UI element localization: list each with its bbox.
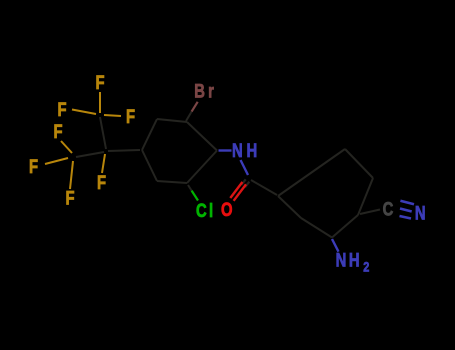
wire ring2 G-A [278, 196, 301, 218]
benzene ring 2 (benzonitrile ring, right) [278, 149, 373, 238]
svg-text:F: F [57, 99, 66, 120]
svg-text:F: F [29, 156, 38, 177]
svg-text:O: O [221, 199, 233, 220]
wire ring1 T-R [187, 122, 217, 151]
wire ring2 E-F [332, 215, 358, 238]
benzene ring 1 (aniline ring, left) [142, 119, 217, 183]
wire C3-Ffl [45, 158, 68, 164]
atom Cl [196, 200, 213, 221]
atom O carbonyl [221, 199, 233, 220]
svg-text:F: F [95, 72, 104, 93]
svg-text:B: B [194, 81, 205, 102]
fluorine labels [29, 72, 135, 209]
wire C1-C2 [100, 117, 106, 149]
wire C2-C3 [76, 152, 104, 157]
bond carbonylC-ring2A [251, 180, 277, 195]
svg-text:F: F [53, 121, 62, 142]
svg-text:l: l [209, 200, 213, 221]
wire ring2 F-G [301, 218, 332, 238]
bond ring1B-Cl dark half [188, 185, 192, 191]
svg-text:F: F [97, 172, 106, 193]
svg-text:F: F [126, 106, 135, 127]
cyano triple bond (blue dashes) [400, 201, 415, 219]
wire ring1 TL-T [157, 119, 187, 122]
wire ring1 R-B [187, 151, 217, 184]
atom N cyano [415, 203, 426, 224]
wire C3-Fml [61, 141, 72, 153]
wire ring1 L-TL [142, 119, 157, 150]
svg-text:H: H [349, 250, 360, 271]
heptafluoroisopropyl carbon skeleton [76, 117, 140, 157]
bond ring2F-NH2 (blue) [332, 239, 339, 252]
bond N-carbonylC (blue) [241, 160, 249, 175]
wire ring2 D-E [358, 178, 373, 215]
wire ring2 A-C long edge [278, 149, 345, 196]
svg-text:C: C [196, 200, 207, 221]
wire C1-Ftop [99, 92, 101, 113]
svg-text:N: N [415, 203, 426, 224]
wire C2-Fc [102, 154, 105, 173]
atom N-H amide [232, 140, 257, 161]
svg-text:N: N [232, 140, 243, 161]
bond ring1B-Cl green half [192, 191, 198, 201]
wire C2-ring1L [108, 150, 140, 151]
atom C cyano (gray) [383, 199, 394, 220]
bond ring1R-N amide (blue, horizontal) [219, 149, 232, 151]
svg-text:N: N [336, 250, 347, 271]
carbonyl C=O double bond: red part [230, 182, 246, 201]
atom N-H2 amino [336, 250, 370, 275]
wire ring1 BL-L [142, 150, 157, 181]
svg-text:C: C [383, 199, 394, 220]
wire C1-Fr [104, 115, 121, 116]
wire ring2 C-D [345, 149, 373, 178]
wire ring1 B-BL [157, 181, 187, 183]
svg-text:2: 2 [363, 259, 369, 275]
wire C3-Fb [70, 161, 73, 189]
svg-text:r: r [208, 81, 214, 102]
bond ring1T-Br dark half [186, 112, 192, 121]
carbonyl C=O double bond: dark tips [241, 179, 249, 187]
C-F bonds (gold) [45, 92, 121, 189]
atom Br [194, 81, 214, 102]
svg-text:H: H [247, 140, 258, 161]
bond ring2E-cyanoC [360, 210, 380, 215]
wire C1-Ful [72, 110, 96, 115]
bond ring1T-Br brown half [192, 102, 198, 112]
svg-text:F: F [65, 188, 74, 209]
